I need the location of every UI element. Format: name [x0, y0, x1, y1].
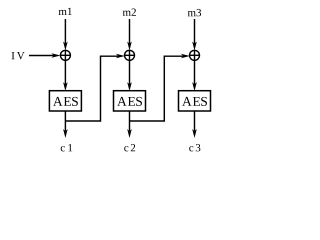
- node c2 label: [124, 144, 135, 151]
- block AES1 text: [53, 97, 78, 106]
- wire AES1 to c1: [64, 111, 66, 131]
- xor gate X2: [125, 50, 135, 60]
- xor gate X1: [60, 50, 70, 60]
- xor gate X3: [190, 50, 200, 60]
- wire IV to XOR1: [29, 55, 54, 57]
- wire m2 to XOR2: [129, 19, 131, 44]
- block AES2 text: [117, 97, 142, 106]
- wire m1 to XOR1: [64, 19, 66, 44]
- node m2 label: [123, 9, 136, 16]
- wire AES3 to c3: [194, 111, 196, 131]
- node c3 label: [189, 144, 200, 151]
- wire AES2 to c2: [129, 111, 131, 131]
- block AES1: [49, 91, 81, 111]
- node m1 label: [59, 8, 72, 15]
- node c1 label: [61, 144, 73, 151]
- wire XOR1 to AES1: [64, 60, 66, 85]
- wire m3 to XOR3: [194, 19, 196, 44]
- wire XOR2 to AES2: [129, 60, 131, 85]
- node m3 label: [188, 9, 201, 16]
- block AES3 text: [182, 97, 207, 106]
- node IV label: [12, 52, 25, 59]
- feedback wire c1 to XOR2: [65, 56, 118, 121]
- block AES3: [179, 91, 211, 111]
- feedback wire c2 to XOR3: [130, 56, 184, 121]
- block AES2: [114, 91, 146, 111]
- wire XOR3 to AES3: [194, 60, 196, 85]
